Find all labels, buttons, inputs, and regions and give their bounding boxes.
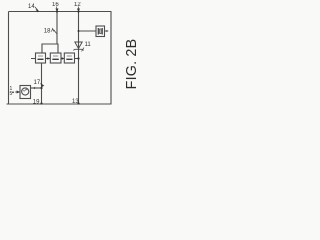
svg-text:5: 5 [10,91,13,97]
svg-text:16: 16 [52,2,59,8]
svg-text:11: 11 [85,42,92,48]
svg-text:14: 14 [28,4,35,10]
svg-text:12: 12 [74,2,81,8]
svg-text:18: 18 [44,29,51,35]
svg-text:19: 19 [33,100,40,106]
svg-text:13: 13 [72,99,79,105]
svg-text:17: 17 [34,80,41,86]
